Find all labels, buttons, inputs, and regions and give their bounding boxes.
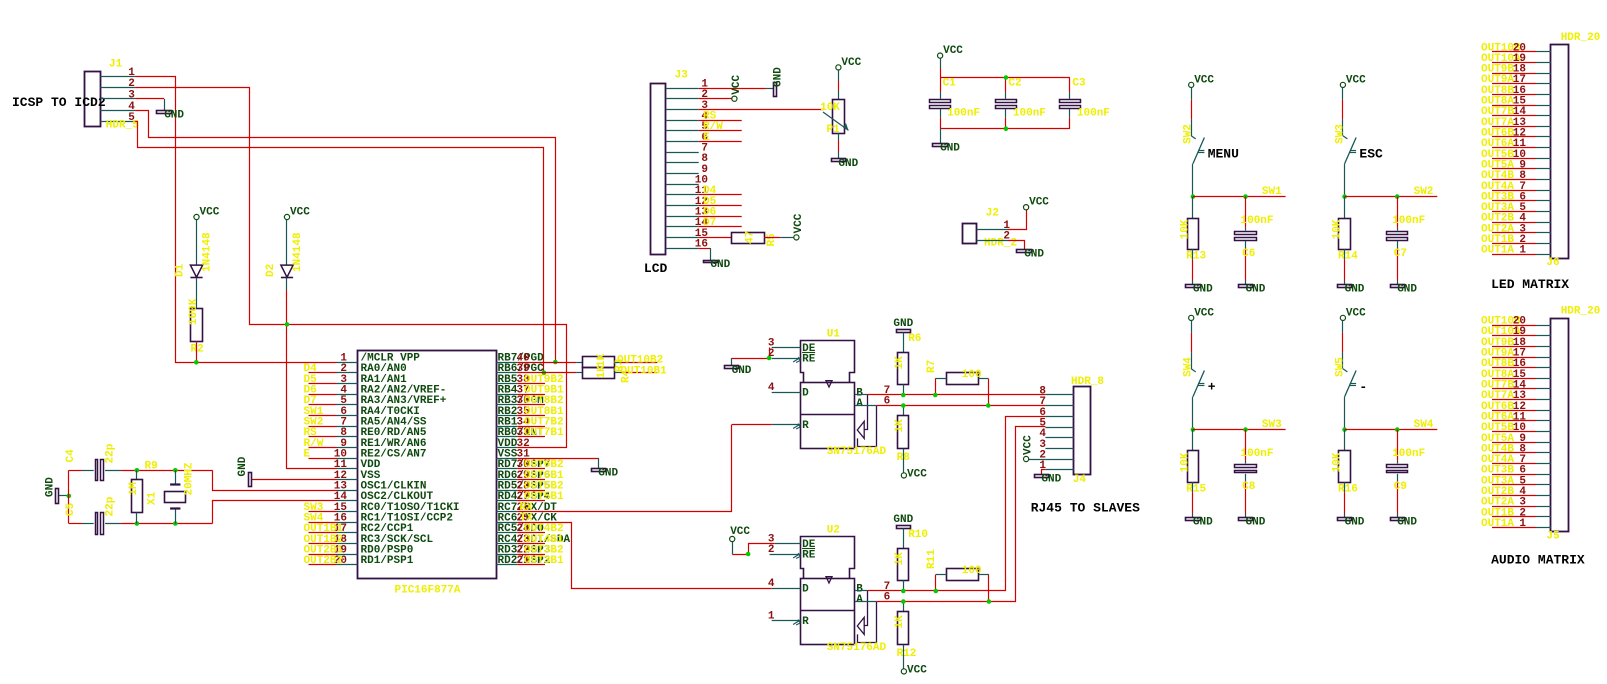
diode D2 1N4148 xyxy=(286,220,288,266)
J5 pin 14 net OUT7B xyxy=(1492,388,1536,390)
ground C7 xyxy=(1391,285,1405,288)
svg-text:C8: C8 xyxy=(1242,481,1256,493)
pin 24 RC5/SDO xyxy=(496,532,517,534)
svg-text:D7: D7 xyxy=(703,217,716,229)
J3 pin 1 xyxy=(666,88,699,90)
net label OUT8B2 + wire xyxy=(517,404,545,406)
pin 16 RC1/T1OSI/CCP2 xyxy=(337,522,358,524)
J6 pin 12 net OUT6B xyxy=(1492,136,1536,138)
svg-text:R16: R16 xyxy=(1338,484,1358,496)
pin 37 RB4 xyxy=(496,394,517,396)
pin 29 RD6/PSP6 xyxy=(496,479,517,481)
svg-text:1K: 1K xyxy=(894,552,906,566)
J5 pin 13 net OUT7A xyxy=(1492,399,1536,401)
svg-text:ICSP TO ICD2: ICSP TO ICD2 xyxy=(12,95,106,110)
net label E wire xyxy=(699,141,742,143)
net label OUT9B2 + wire xyxy=(517,383,545,385)
svg-text:1K: 1K xyxy=(596,353,608,367)
wire U2 A to RJ45 pin5 xyxy=(877,427,1046,602)
wire R2 to MCLR xyxy=(196,341,198,362)
J5 pin 17 net OUT9A xyxy=(1492,357,1536,359)
resistor R10 1K xyxy=(898,549,909,581)
capacitor C5 22p xyxy=(69,523,82,525)
pin 35 RB2 xyxy=(496,415,517,417)
net label SW4 + wire xyxy=(309,522,337,524)
IC U1 SN75176AD body xyxy=(803,0,805,1)
svg-text:C5: C5 xyxy=(65,502,77,516)
svg-text:GND: GND xyxy=(1041,473,1061,485)
ground R14 xyxy=(1338,285,1352,288)
net label OUT1B2 + wire xyxy=(309,543,337,545)
wire J4 pin2 to VCC xyxy=(1029,459,1046,461)
wire J2 pin1 to VCC xyxy=(1008,210,1027,230)
svg-text:VCC: VCC xyxy=(1194,74,1214,86)
resistor R9 1M xyxy=(136,470,138,479)
net label OUT9B1 + wire xyxy=(517,394,545,396)
wire RB6 to R4 xyxy=(517,372,576,374)
J3 pin 9 xyxy=(666,173,699,175)
ground J2 xyxy=(1017,250,1032,253)
U1 R pin wire to RC7 xyxy=(772,424,801,426)
resistor R12 1K xyxy=(903,602,905,612)
svg-text:SW5: SW5 xyxy=(1334,357,1346,377)
svg-text:R11: R11 xyxy=(926,549,938,569)
capacitor C2 100nF xyxy=(1005,78,1007,93)
net label OUT7B1 + wire xyxy=(517,436,545,438)
svg-text:VCC: VCC xyxy=(1346,307,1366,319)
connector J3 LCD xyxy=(651,84,666,255)
pin 8 RE0/RD/AN5 xyxy=(337,436,358,438)
wire J1 pin4 PGD net xyxy=(135,111,555,363)
svg-text:1: 1 xyxy=(1519,518,1526,530)
J3 pin 5 xyxy=(666,130,699,132)
switch SW5 - xyxy=(1342,321,1344,333)
svg-text:PIC16F877A: PIC16F877A xyxy=(395,585,461,597)
svg-text:100nF: 100nF xyxy=(1392,448,1425,460)
junction cap C6 xyxy=(1243,194,1248,199)
pin 25 RC6/TX/CK xyxy=(496,522,517,524)
svg-text:SW3: SW3 xyxy=(1334,124,1346,144)
net label OUT3B1 + wire xyxy=(517,564,545,566)
wire RC7 to U1 R xyxy=(517,425,731,512)
pin 4 RA2/AN2/VREF- xyxy=(337,394,358,396)
ground R15 xyxy=(1186,518,1201,521)
J4 pin 6 xyxy=(1045,416,1073,418)
svg-text:4: 4 xyxy=(128,101,135,113)
power VCC R5 xyxy=(794,235,799,240)
wire J1 pin2 to VCC/VDD net xyxy=(135,88,566,448)
pin 9 RE1/WR/AN6 xyxy=(337,447,358,449)
svg-text:10K: 10K xyxy=(1331,219,1343,239)
svg-text:GND: GND xyxy=(1246,283,1266,295)
net label OUT4B1 + wire xyxy=(517,543,545,545)
J5 pin 18 net OUT9B xyxy=(1492,346,1536,348)
svg-text:10K: 10K xyxy=(1180,219,1192,239)
junction R10 B xyxy=(901,589,906,594)
pin 33 RB0/INT xyxy=(496,436,517,438)
svg-text:GND: GND xyxy=(598,467,618,479)
pin 26 RC7/RX/DT xyxy=(496,511,517,513)
junction X1 bottom xyxy=(173,521,178,526)
svg-text:C9: C9 xyxy=(1394,481,1407,493)
pin 20 RD1/PSP1 xyxy=(337,564,358,566)
svg-text:OUT10B1: OUT10B1 xyxy=(621,366,668,378)
power VCC D2 xyxy=(284,214,289,219)
J5 pin 12 net OUT6B xyxy=(1492,410,1536,412)
svg-text:D2: D2 xyxy=(265,264,277,277)
svg-text:C7: C7 xyxy=(1394,248,1407,260)
capacitor C9 100nF xyxy=(1397,430,1399,461)
J5 pin 8 net OUT4B xyxy=(1492,452,1536,454)
svg-text:AUDIO MATRIX: AUDIO MATRIX xyxy=(1491,553,1585,568)
J4 pin 1 xyxy=(1045,469,1073,471)
svg-text:OUT1A: OUT1A xyxy=(1481,518,1514,530)
U2 A pin wire xyxy=(855,601,877,603)
wire J3 pin16 to GND xyxy=(699,248,711,250)
connector J6 HDR_20 xyxy=(1551,45,1569,259)
svg-text:1: 1 xyxy=(128,67,135,79)
junction R7 B xyxy=(933,393,938,398)
wire cap top rail xyxy=(940,77,1070,79)
J5 pin 15 net OUT8A xyxy=(1492,378,1536,380)
resistor R14 10K xyxy=(1344,197,1346,218)
svg-text:100nF: 100nF xyxy=(947,108,980,120)
svg-text:R7: R7 xyxy=(926,360,938,373)
J3 pin 2 xyxy=(666,98,699,100)
net label D5 + wire xyxy=(309,383,337,385)
svg-text:1K: 1K xyxy=(596,365,608,379)
svg-text:VCC: VCC xyxy=(907,468,927,480)
wire C1 to gnd xyxy=(940,129,942,144)
J3 pin 4 xyxy=(666,120,699,122)
svg-text:GND: GND xyxy=(1246,516,1266,528)
pin 3 RA1/AN1 xyxy=(337,383,358,385)
svg-text:4: 4 xyxy=(768,382,775,394)
net label D4 wire xyxy=(699,194,742,196)
power VCC U2 xyxy=(730,536,735,541)
IC U2 SN75176AD body xyxy=(803,0,805,1)
wire net SW3 xyxy=(1193,429,1286,431)
svg-text:OUT2B2: OUT2B2 xyxy=(304,555,344,567)
svg-text:J6: J6 xyxy=(1546,257,1559,269)
junction D2 VCC net xyxy=(285,322,290,327)
svg-text:U2: U2 xyxy=(827,525,840,537)
pin 22 RD3/PSP3 xyxy=(496,554,517,556)
power VCC SW4 xyxy=(1189,315,1194,320)
junction SW3 xyxy=(1342,194,1347,199)
net label D7 wire xyxy=(699,226,742,228)
junction R9 top xyxy=(135,468,140,473)
net label OUT3B2 + wire xyxy=(517,554,545,556)
crystal X1 20MHZ xyxy=(175,470,177,484)
svg-text:R10: R10 xyxy=(908,529,928,541)
net label OUT5B1 + wire xyxy=(517,500,545,502)
svg-text:D: D xyxy=(802,388,809,400)
wire OSC1 to pin13 xyxy=(213,470,337,490)
svg-text:HDR_20: HDR_20 xyxy=(1561,306,1601,318)
svg-text:100K: 100K xyxy=(188,298,200,325)
wire osc top rail xyxy=(121,470,212,472)
svg-text:VCC: VCC xyxy=(1029,197,1049,209)
svg-text:+: + xyxy=(1208,380,1216,395)
ground crystal xyxy=(56,489,59,504)
svg-text:-: - xyxy=(1359,380,1367,395)
ground J1 pin3 xyxy=(157,111,172,114)
svg-text:22p: 22p xyxy=(105,496,117,516)
junction R7 A xyxy=(986,403,991,408)
svg-text:GND: GND xyxy=(732,365,752,377)
svg-text:100: 100 xyxy=(962,369,982,381)
pin 21 RD2/PSP2 xyxy=(496,564,517,566)
pin 23 RC4/SDI/SDA xyxy=(496,543,517,545)
svg-text:GND: GND xyxy=(1345,283,1365,295)
net label RS + wire xyxy=(309,436,337,438)
power VCC SW5 xyxy=(1340,315,1345,320)
svg-text:2: 2 xyxy=(768,544,775,556)
svg-text:ESC: ESC xyxy=(1359,147,1383,162)
svg-text:R5: R5 xyxy=(766,233,778,247)
net label OUT4B2 + wire xyxy=(517,532,545,534)
net label D5 wire xyxy=(699,205,742,207)
J6 pin 18 net OUT9B xyxy=(1492,73,1536,75)
net label SW3 + wire xyxy=(309,511,337,513)
svg-text:RJ45 TO SLAVES: RJ45 TO SLAVES xyxy=(1031,501,1140,516)
svg-text:GND: GND xyxy=(1024,248,1044,260)
svg-text:2: 2 xyxy=(768,348,775,360)
potentiometer P1 10K xyxy=(836,65,841,70)
net label OUT5B2 + wire xyxy=(517,490,545,492)
J5 pin 10 net OUT5B xyxy=(1492,431,1536,433)
net label OUT2B1 + wire xyxy=(309,554,337,556)
svg-text:R15: R15 xyxy=(1186,484,1206,496)
net label SW2 + wire xyxy=(309,426,337,428)
J3 pin 13 xyxy=(666,216,699,218)
svg-text:1: 1 xyxy=(1519,245,1526,257)
svg-text:GND: GND xyxy=(1193,283,1213,295)
capacitor C3 100nF xyxy=(1069,78,1071,93)
svg-text:J1: J1 xyxy=(109,59,123,71)
svg-text:SW3: SW3 xyxy=(1262,419,1282,431)
pin 1 /MCLR VPP xyxy=(337,362,358,364)
U1 A pin wire xyxy=(855,405,877,407)
svg-text:1K: 1K xyxy=(894,615,906,629)
J6 pin 14 net OUT7B xyxy=(1492,115,1536,117)
svg-text:HDR_20: HDR_20 xyxy=(1561,32,1601,44)
J6 pin 2 net OUT1B xyxy=(1492,243,1536,245)
connector J1 xyxy=(85,72,101,127)
svg-text:OUT1A: OUT1A xyxy=(1481,245,1514,257)
J5 pin 5 net OUT3A xyxy=(1492,484,1536,486)
svg-text:100nF: 100nF xyxy=(1013,108,1046,120)
resistor R3 1K xyxy=(583,357,615,368)
power VCC J3 pin2 xyxy=(732,96,737,101)
svg-text:R: R xyxy=(802,616,809,628)
pin 40 RB7/PGD xyxy=(496,362,517,364)
wire J1 pin1 to MCLR net xyxy=(135,77,336,363)
wire U1 A to RJ45 pin7 xyxy=(877,405,1046,407)
wire osc bottom rail xyxy=(121,523,212,525)
junction cap C7 xyxy=(1395,194,1400,199)
J6 pin 5 net OUT3A xyxy=(1492,211,1536,213)
svg-text:10K: 10K xyxy=(1180,452,1192,472)
svg-text:20MHZ: 20MHZ xyxy=(184,462,196,495)
svg-text:D1: D1 xyxy=(175,263,187,277)
J6 pin 20 net OUT10B xyxy=(1492,51,1536,53)
svg-text:GND: GND xyxy=(710,259,730,271)
svg-text:R6: R6 xyxy=(908,333,921,345)
J2 pin 2 xyxy=(977,240,1008,242)
J5 pin 1 net OUT1A xyxy=(1492,527,1536,529)
svg-text:SN75176AD: SN75176AD xyxy=(827,446,887,458)
svg-text:3: 3 xyxy=(128,90,135,102)
svg-text:E: E xyxy=(304,449,311,461)
junction cap C8 xyxy=(1243,427,1248,432)
svg-text:GND: GND xyxy=(893,514,913,526)
svg-text:VCC: VCC xyxy=(793,213,805,233)
svg-text:RE: RE xyxy=(802,354,816,366)
svg-text:E: E xyxy=(703,132,710,144)
ground C6 xyxy=(1239,285,1253,288)
capacitor C1 100nF xyxy=(940,78,942,93)
svg-text:GND: GND xyxy=(164,109,184,121)
power VCC D1 xyxy=(194,214,199,219)
pin 15 RC0/T1OSO/T1CKI xyxy=(337,511,358,513)
J6 pin 6 net OUT3B xyxy=(1492,200,1536,202)
J5 pin 16 net OUT8B xyxy=(1492,367,1536,369)
wire VSS31 to ground xyxy=(517,458,598,460)
svg-text:1: 1 xyxy=(1039,460,1046,472)
J6 pin 9 net OUT5A xyxy=(1492,168,1536,170)
net label D4 + wire xyxy=(309,372,337,374)
svg-text:1K: 1K xyxy=(894,356,906,370)
svg-text:SW2: SW2 xyxy=(1414,186,1434,198)
net label R/W wire xyxy=(699,130,742,132)
capacitor C6 100nF xyxy=(1245,197,1247,228)
pin 31 VSS xyxy=(496,458,517,460)
junction X1 top xyxy=(173,468,178,473)
svg-text:HDR_2: HDR_2 xyxy=(984,238,1017,250)
wire OSC2 to pin14 xyxy=(213,501,337,524)
wire J3 pin2 to VCC xyxy=(699,98,732,100)
svg-text:GND: GND xyxy=(1397,516,1417,528)
net OUT10B2 wire xyxy=(615,362,621,364)
wire net SW4 xyxy=(1345,429,1438,431)
ground VSS31 xyxy=(592,469,606,472)
diode D1 1N4148 xyxy=(196,220,198,266)
U1 B pin wire xyxy=(855,394,868,396)
pin 12 VSS xyxy=(337,479,358,481)
power VCC J2 xyxy=(1024,205,1029,210)
svg-text:47: 47 xyxy=(745,231,757,244)
pin 5 RA3/AN3/VREF+ xyxy=(337,404,358,406)
power VCC C1 xyxy=(938,53,943,58)
wire J3 pin3 to P1 wiper xyxy=(699,109,824,111)
ground J4 xyxy=(1035,475,1049,478)
pin 27 RD4/PSP4 xyxy=(496,500,517,502)
J6 pin 7 net OUT4A xyxy=(1492,190,1536,192)
svg-text:OUT7B1: OUT7B1 xyxy=(524,427,564,439)
net label SW1 + wire xyxy=(309,415,337,417)
wire U1 B to RJ45 pin8 xyxy=(868,394,1046,396)
svg-text:10K: 10K xyxy=(820,102,840,114)
wire J1 pin5 PGC net xyxy=(135,122,543,373)
ground VSS pin12 xyxy=(249,473,252,487)
svg-text:GND: GND xyxy=(237,456,249,476)
J6 pin 15 net OUT8A xyxy=(1492,105,1536,107)
connector J4 HDR_8 xyxy=(1074,387,1091,475)
svg-text:C1: C1 xyxy=(943,78,957,90)
net label D7 + wire xyxy=(309,404,337,406)
svg-text:GND: GND xyxy=(45,477,57,497)
U1 D pin stub xyxy=(772,392,801,394)
svg-text:1N4148: 1N4148 xyxy=(292,232,304,272)
svg-text:1N4148: 1N4148 xyxy=(202,232,214,272)
J4 pin 8 xyxy=(1045,394,1073,396)
svg-text:R2: R2 xyxy=(191,344,204,356)
J5 pin 3 net OUT2A xyxy=(1492,506,1536,508)
wire D1 to R2 xyxy=(196,278,198,309)
svg-text:VCC: VCC xyxy=(907,664,927,676)
J5 pin 20 net OUT10B xyxy=(1492,325,1536,327)
svg-text:MENU: MENU xyxy=(1208,147,1239,162)
J3 pin 10 xyxy=(666,184,699,186)
svg-text:C6: C6 xyxy=(1242,248,1255,260)
svg-text:VCC: VCC xyxy=(1023,435,1035,455)
J5 pin 11 net OUT6A xyxy=(1492,420,1536,422)
resistor R5 47 xyxy=(732,233,765,244)
svg-text:J4: J4 xyxy=(1073,474,1087,486)
J4 pin 3 xyxy=(1045,448,1073,450)
J3 pin 6 xyxy=(666,141,699,143)
J5 pin 9 net OUT5A xyxy=(1492,442,1536,444)
svg-text:GND: GND xyxy=(838,158,858,170)
power VCC SW3 xyxy=(1340,82,1345,87)
svg-text:100nF: 100nF xyxy=(1077,108,1110,120)
net OUT10B1 wire xyxy=(615,372,621,374)
svg-text:RD1/PSP1: RD1/PSP1 xyxy=(361,555,414,567)
junction R11 A xyxy=(987,599,992,604)
J6 pin 11 net OUT6A xyxy=(1492,147,1536,149)
pin 19 RD0/PSP0 xyxy=(337,554,358,556)
ground J3 pin16 xyxy=(704,261,718,263)
J3 pin 11 xyxy=(666,194,699,196)
IC U3 PIC16F877A body xyxy=(358,351,497,579)
wire RC6 to U2 D xyxy=(517,523,772,589)
J6 pin 1 net OUT1A xyxy=(1492,254,1536,256)
wire net SW2 xyxy=(1345,196,1438,198)
svg-text:HDR_5: HDR_5 xyxy=(106,120,139,132)
wire cap bottom rail xyxy=(940,128,1070,130)
switch SW4 + xyxy=(1191,321,1193,333)
junction crystal gnd xyxy=(67,494,72,499)
svg-text:SN75176AD: SN75176AD xyxy=(827,642,887,654)
svg-text:1M: 1M xyxy=(128,482,140,496)
J6 pin 16 net OUT8B xyxy=(1492,94,1536,96)
pin 32 VDD xyxy=(496,447,517,449)
pin 10 RE2/CS/AN7 xyxy=(337,458,358,460)
J6 pin 8 net OUT4B xyxy=(1492,179,1536,181)
wire J3 pin15 to R5 xyxy=(699,237,732,239)
ground C9 xyxy=(1391,518,1405,521)
net label RS wire xyxy=(699,120,742,122)
J2 pin 1 xyxy=(977,229,1008,231)
svg-text:J2: J2 xyxy=(986,208,999,220)
ground R13 xyxy=(1186,285,1201,288)
wire J4 pin1 to GND xyxy=(1042,470,1046,475)
pin 7 RA5/AN4/SS xyxy=(337,426,358,428)
resistor R15 10K xyxy=(1192,430,1194,451)
resistor R16 10K xyxy=(1344,430,1346,451)
